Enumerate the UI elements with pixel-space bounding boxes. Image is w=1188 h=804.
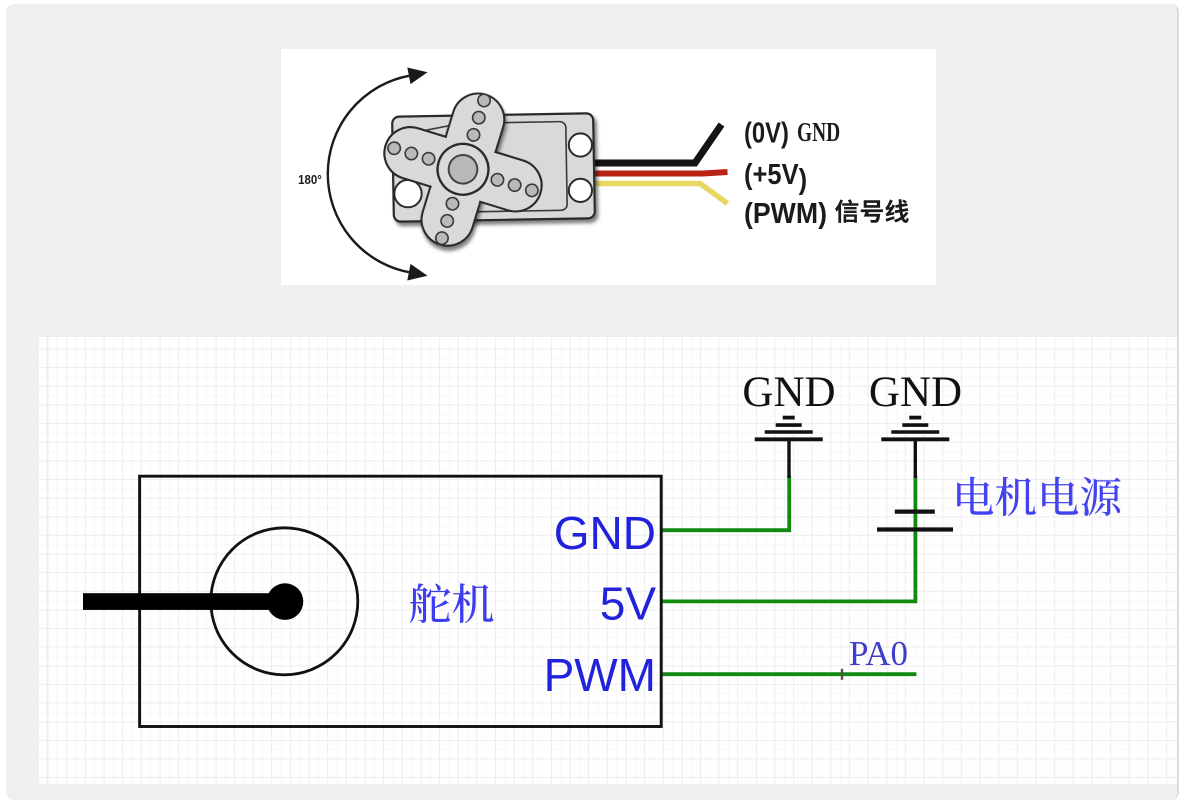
label (PWM) — [744, 197, 827, 229]
wire PWM (green) — [661, 672, 916, 676]
servo arm — [83, 593, 285, 610]
rotation arc 180 degrees — [328, 76, 409, 272]
horn center ring — [431, 138, 494, 201]
ground symbol 1 — [755, 418, 823, 478]
servo body — [392, 113, 595, 221]
label dian ji dian yuan (motor power) — [957, 477, 1120, 516]
label duo ji (servo) — [410, 583, 493, 623]
junction tick on PWM wire — [841, 669, 843, 680]
label xin hao xian (signal wire) — [835, 199, 909, 223]
arc arrowhead bottom — [407, 264, 427, 281]
svg-text:GND: GND — [742, 369, 835, 416]
horn holes — [365, 72, 560, 267]
servo body inner panel — [452, 122, 568, 213]
servo horn cross — [363, 71, 564, 268]
wire 5V (green) — [661, 476, 915, 602]
wire GND (green) — [661, 476, 789, 531]
svg-text:5V: 5V — [600, 578, 657, 630]
servo mounting hole bottom-right — [569, 179, 592, 202]
battery motor power supply — [877, 512, 953, 530]
svg-text:(PWM): (PWM) — [744, 197, 827, 229]
svg-text:(+5V): (+5V) — [744, 157, 807, 195]
horn center hub — [445, 151, 481, 187]
servo cable red wire — [594, 172, 728, 174]
servo shaft dot — [267, 583, 304, 620]
svg-text:(0V): (0V) — [744, 116, 789, 149]
servo body top-left edge line — [396, 124, 458, 136]
servo cable black wire — [594, 125, 722, 164]
servo cable yellow wire — [594, 184, 728, 204]
servo mounting hole top-right — [569, 133, 592, 156]
svg-text:180°: 180° — [298, 172, 322, 187]
label (+5V) — [744, 157, 807, 195]
svg-text:PWM: PWM — [544, 649, 656, 701]
svg-text:GND: GND — [797, 118, 840, 148]
servo shaft circle — [211, 528, 358, 675]
servo box — [140, 476, 662, 726]
svg-text:GND: GND — [869, 369, 962, 416]
label (0V) — [744, 116, 789, 149]
svg-text:GND: GND — [554, 507, 656, 559]
servo mounting hole bottom-left — [394, 180, 421, 207]
ground symbol 2 — [881, 418, 949, 478]
arc arrowhead top — [407, 68, 427, 85]
label GND (cable) — [797, 118, 840, 148]
svg-text:PA0: PA0 — [849, 634, 908, 673]
